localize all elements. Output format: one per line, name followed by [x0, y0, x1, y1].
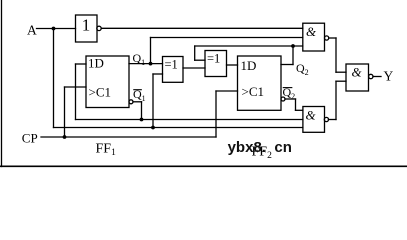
- wire XOR2 output to FF2: [227, 64, 238, 66]
- wire FF1 clock input stub: [65, 86, 87, 88]
- wire Q1 horizontal to NAND1: [151, 37, 303, 39]
- svg-text:Q2: Q2: [283, 85, 296, 101]
- node Q1bar junction: [140, 118, 144, 122]
- label Q2bar overbar: [283, 87, 292, 89]
- node A bus to XOR1 junction: [151, 126, 155, 130]
- wire Q2bar to NAND2 stub: [296, 109, 303, 111]
- wire Q2bar drop: [295, 99, 297, 110]
- node Q1 junction: [149, 62, 153, 66]
- frame left border: [1, 0, 3, 167]
- wire Q2 bus horizontal: [195, 45, 303, 47]
- wire NAND1 output drop: [335, 38, 337, 72]
- wire XOR2 upper input stub: [195, 59, 205, 61]
- wire NAND3 output to Y: [373, 76, 381, 78]
- wire Q1bar bus: [76, 119, 303, 121]
- svg-text:1: 1: [82, 15, 91, 34]
- wire NAND2 output: [329, 119, 337, 121]
- flip-flop FF1 box: [86, 56, 129, 108]
- wire Q1bar output stub: [133, 101, 142, 103]
- svg-text:CP: CP: [22, 131, 38, 146]
- wire CP riser to FF1: [64, 87, 66, 137]
- wire Q1bar drop: [141, 102, 143, 120]
- flip-flop FF2 Q2bar output bubble: [281, 97, 285, 101]
- svg-text:&: &: [352, 65, 363, 80]
- wire A vertical riser: [53, 29, 55, 128]
- flip-flop FF1 Q1bar output bubble: [129, 100, 133, 104]
- wire NAND3 lower input stub: [336, 80, 346, 82]
- wire A horizontal bus: [54, 127, 303, 129]
- wire Q2 riser to XOR2: [194, 46, 196, 60]
- flip-flop FF2 box: [238, 56, 282, 110]
- nand gate NAND3 output bubble: [369, 74, 373, 78]
- label Q1bar overbar: [134, 89, 142, 91]
- wire Q1 riser to NAND1: [150, 38, 152, 64]
- svg-text:Y: Y: [384, 69, 394, 84]
- node A junction: [52, 27, 56, 31]
- inverter G1 output bubble: [97, 26, 101, 30]
- wire CP input: [41, 136, 216, 138]
- wire XOR1 lower input riser from A bus: [152, 74, 154, 128]
- wire Q1bar feedback riser: [75, 64, 77, 120]
- wire Q2 output: [281, 64, 293, 66]
- node Q2 junction: [291, 44, 295, 48]
- nand gate NAND1 output bubble: [325, 36, 329, 40]
- svg-text:Q2: Q2: [296, 61, 309, 77]
- svg-text:=1: =1: [165, 57, 178, 71]
- svg-text:&: &: [306, 108, 317, 123]
- svg-text:ybx8.: ybx8.: [228, 139, 266, 156]
- svg-text:1D: 1D: [88, 56, 104, 71]
- xor gate XOR2 box: [205, 51, 227, 77]
- nand gate NAND1 box: [303, 23, 325, 51]
- svg-text:>C1: >C1: [89, 85, 112, 100]
- wire FF2 clock riser from CP: [215, 91, 217, 137]
- svg-text:Q1: Q1: [133, 51, 146, 67]
- nand gate NAND3 box: [346, 64, 369, 91]
- xor gate XOR1 box: [163, 57, 184, 83]
- wire NAND3 upper input stub: [336, 71, 346, 73]
- wire NAND1 output: [329, 37, 336, 39]
- wire Q1 output to XOR1: [129, 63, 163, 65]
- svg-text:1D: 1D: [241, 58, 257, 73]
- wire FF2 clock input stub: [216, 90, 238, 92]
- wire FF1 D input stub: [76, 63, 87, 65]
- nand gate NAND2 box: [303, 107, 325, 133]
- wire XOR1 output to XOR2: [183, 67, 205, 69]
- frame bottom border: [0, 165, 407, 167]
- inverter G1 box: [76, 15, 98, 42]
- svg-text:cn: cn: [274, 139, 292, 156]
- wire Q2bar output stub: [285, 98, 296, 100]
- node CP junction: [63, 135, 67, 139]
- wire XOR1 lower input stub: [153, 73, 163, 75]
- svg-text:A: A: [27, 23, 37, 38]
- nand gate NAND2 output bubble: [324, 117, 328, 121]
- wire NAND2 output rise: [335, 81, 337, 119]
- svg-text:=1: =1: [207, 51, 220, 65]
- svg-text:Q1: Q1: [133, 87, 146, 103]
- wire Q2 riser: [292, 46, 294, 65]
- svg-text:FF1: FF1: [96, 141, 117, 158]
- wire A input to inverter: [37, 28, 76, 30]
- svg-text:>C1: >C1: [242, 84, 265, 99]
- wire inverter output to NAND1: [101, 27, 303, 29]
- svg-text:&: &: [306, 24, 317, 39]
